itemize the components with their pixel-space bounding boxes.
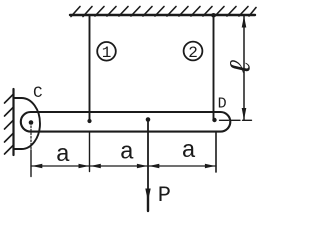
label circle 1 xyxy=(97,42,116,61)
l dim arrow down xyxy=(242,108,247,120)
dimension line a a a xyxy=(31,165,216,167)
dim arrow left end xyxy=(32,164,43,168)
dim extension below pin C xyxy=(30,126,32,150)
dim extension right at D xyxy=(215,132,217,173)
svg-text:a: a xyxy=(182,138,196,165)
svg-text:D: D xyxy=(218,96,227,113)
dim arrows at rod 1 xyxy=(79,164,90,168)
dim arrow right end xyxy=(205,164,216,168)
l dimension line xyxy=(243,16,245,121)
dim arrows at P xyxy=(137,164,148,168)
ceiling hatching xyxy=(71,7,256,17)
label circle 2 xyxy=(184,42,203,61)
pin bracket at C xyxy=(14,98,40,149)
svg-text:2: 2 xyxy=(188,44,198,62)
l dim arrow up xyxy=(242,16,247,28)
P application dot xyxy=(146,117,151,122)
wall xyxy=(12,89,14,155)
svg-text:1: 1 xyxy=(102,44,112,62)
ceiling line xyxy=(70,14,255,16)
dim extension below rod 1 xyxy=(89,132,91,172)
rod 1 pin dot xyxy=(87,119,91,123)
rod 1 xyxy=(89,15,91,121)
pin C dot xyxy=(29,120,34,125)
svg-text:P: P xyxy=(158,183,171,208)
svg-text:C: C xyxy=(33,84,43,102)
svg-text:a: a xyxy=(56,142,70,169)
svg-text:ℓ: ℓ xyxy=(227,57,258,77)
wall hatching xyxy=(5,94,14,154)
extension line from D to l dim xyxy=(220,119,252,121)
pin D dot xyxy=(212,118,216,122)
svg-text:a: a xyxy=(120,140,134,167)
rod 2 xyxy=(213,15,215,120)
beam xyxy=(21,112,231,132)
force P line xyxy=(147,120,149,211)
junction dot rod 2 at ceiling xyxy=(211,13,216,18)
force P arrowhead xyxy=(145,189,150,202)
